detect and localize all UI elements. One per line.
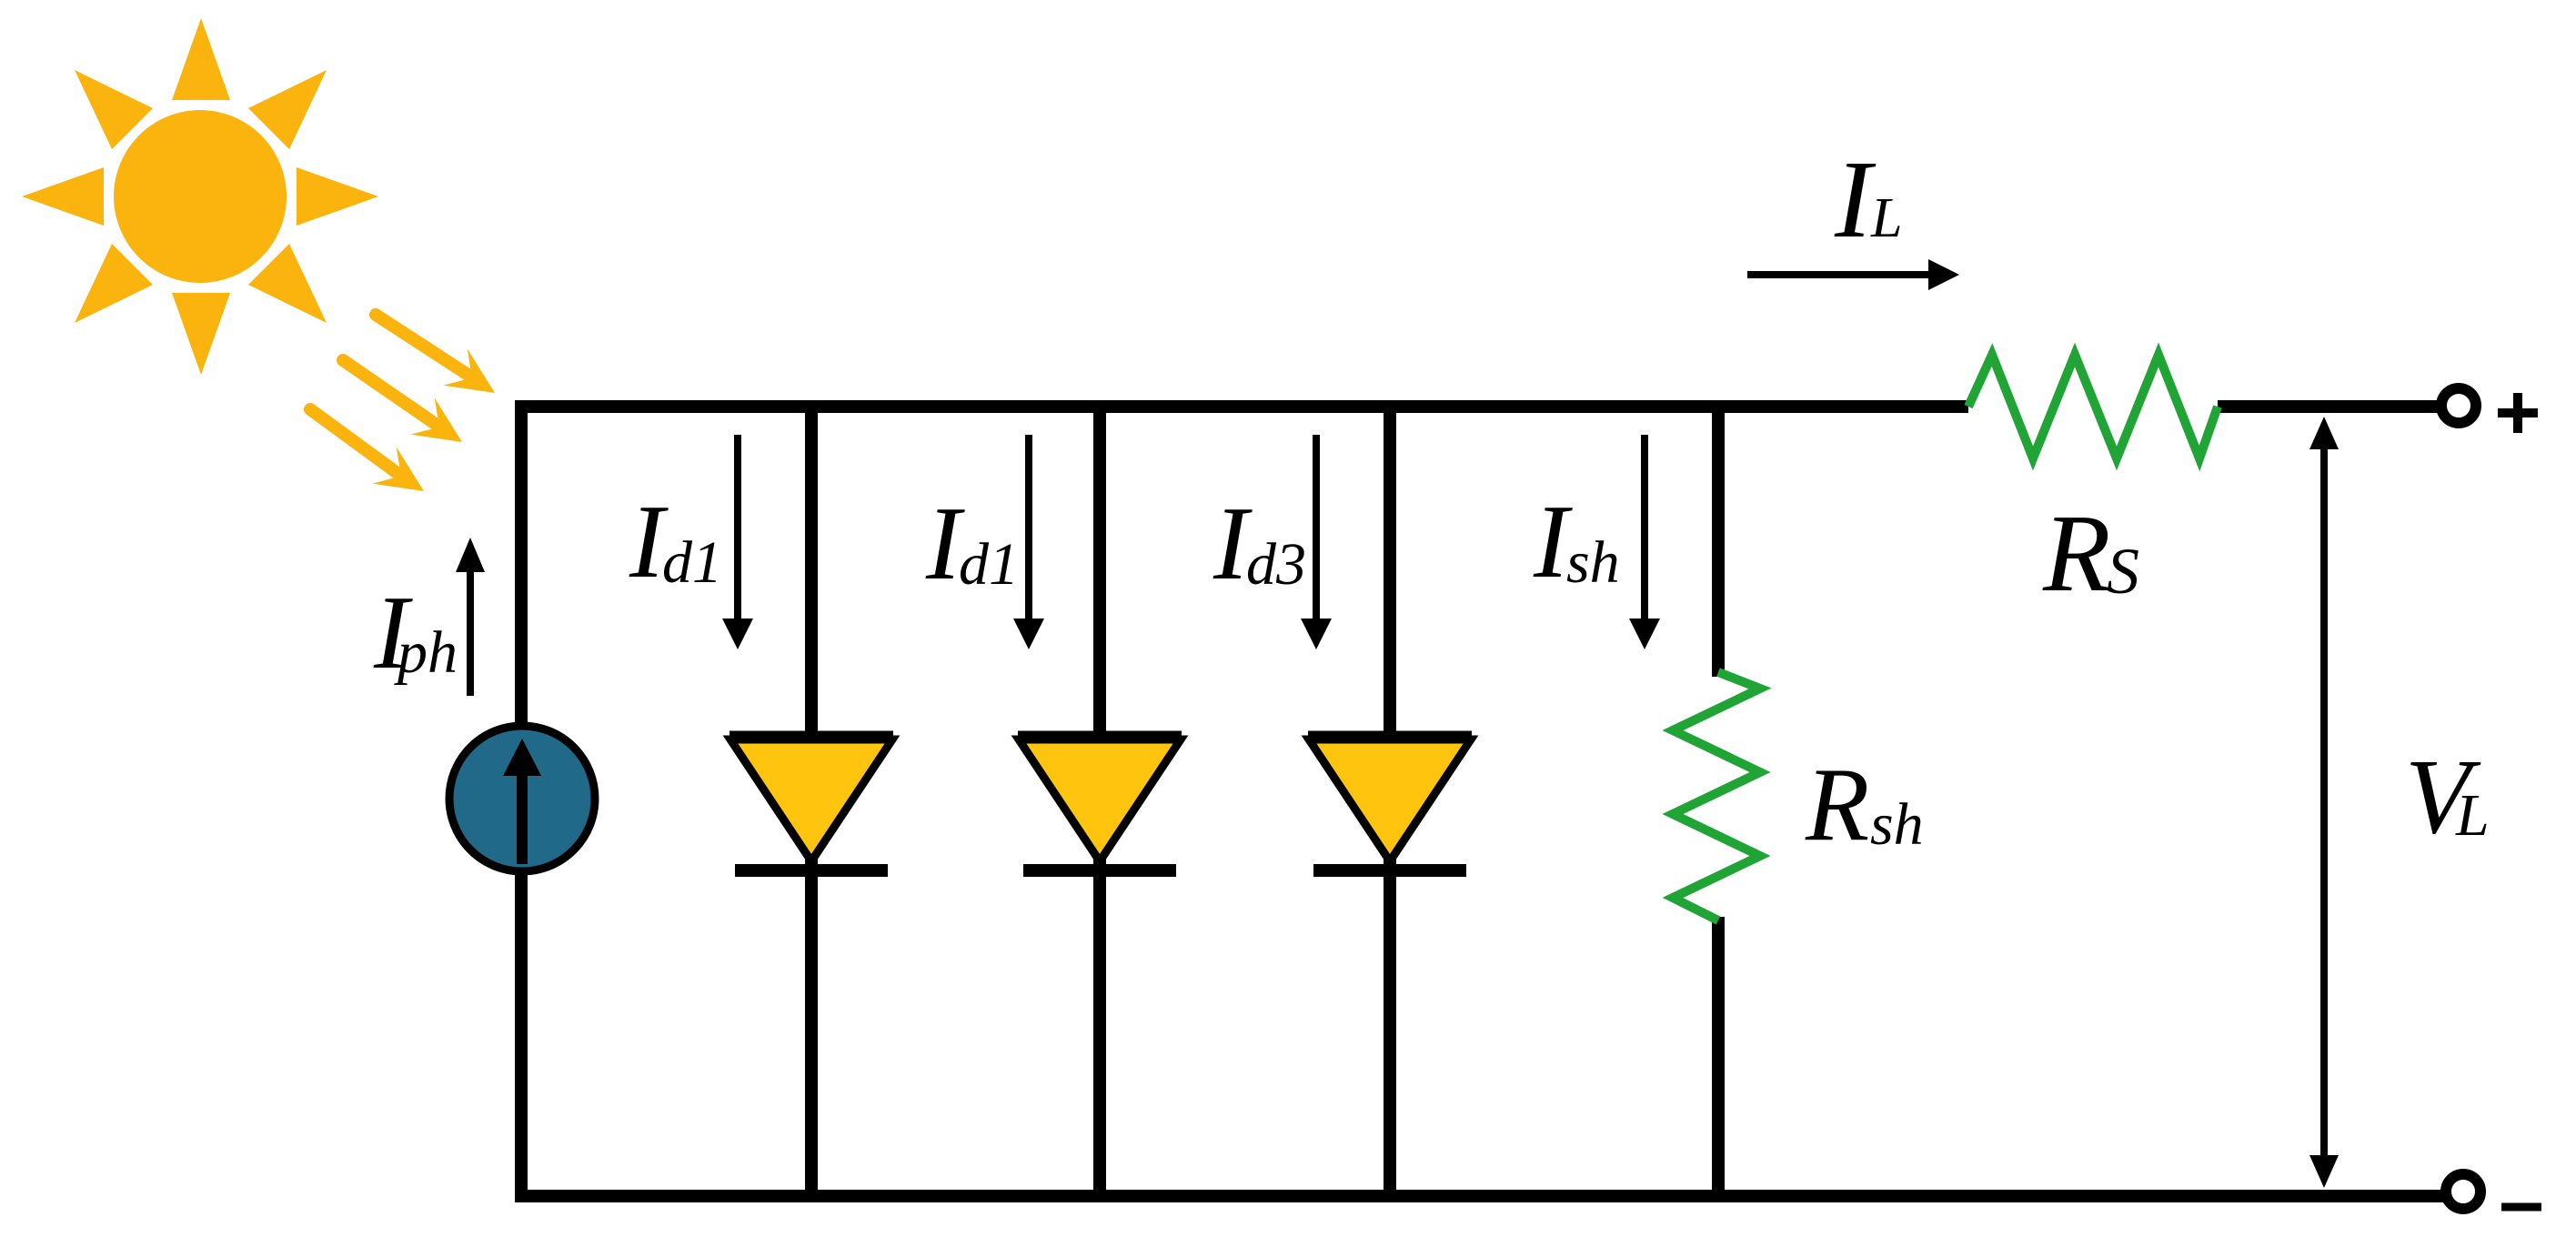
svg-text:sh: sh xyxy=(1566,529,1620,596)
svg-text:L: L xyxy=(1870,187,1902,249)
svg-text:d1: d1 xyxy=(959,531,1019,598)
svg-text:L: L xyxy=(2455,782,2490,849)
svg-text:R: R xyxy=(2042,492,2111,615)
svg-text:d1: d1 xyxy=(662,529,722,596)
svg-text:S: S xyxy=(2107,535,2139,608)
svg-text:d3: d3 xyxy=(1246,531,1306,598)
svg-text:R: R xyxy=(1805,747,1869,862)
svg-text:ph: ph xyxy=(394,619,458,686)
svg-text:I: I xyxy=(1834,138,1877,261)
svg-text:sh: sh xyxy=(1870,791,1924,858)
